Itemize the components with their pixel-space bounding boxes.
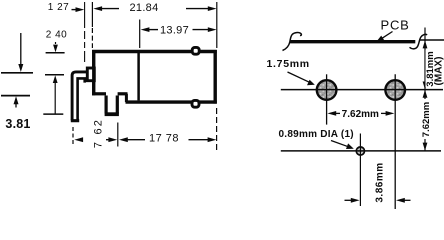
svg-text:0.89mm DIA (1): 0.89mm DIA (1) [279,129,354,140]
lever bottom reference tick [43,113,63,115]
right hole [385,80,405,100]
dim 21.84 right arrow [186,8,210,10]
switch body outline [92,50,217,104]
dim 13.97 right arrow [193,29,211,31]
dim 7.62mm vertical down arrow [423,143,428,151]
PCB board edge line [290,40,415,43]
dim 7.62 pin extension line [117,123,119,147]
svg-text:3.86mm: 3.86mm [375,162,386,202]
leader to left hole [288,72,310,82]
dim 3.86mm left outside arrow [345,199,353,201]
svg-text:3.81: 3.81 [5,117,30,131]
dim 13.97 extension line [139,20,141,49]
right hole vertical centerline [394,74,396,209]
small hole [356,147,364,155]
svg-text:7 62: 7 62 [92,118,104,148]
dim 3.86mm right outside arrow [396,198,405,203]
right break curl [410,34,428,49]
svg-text:2 40: 2 40 [46,30,67,41]
dim 7.62 right arrow [106,139,110,141]
extension line at bump left [84,2,86,62]
rotated label 3.81mm [425,50,436,87]
dim 7.62 lever extension line [72,127,74,147]
top mounting boss [192,47,199,54]
dim 2.40 lower arrow [45,74,64,76]
dim 13.97 left arrow [141,27,150,32]
left hole vertical centerline [326,74,328,124]
dim 3.81 upper arrow [20,33,22,65]
small hole row line [281,150,441,152]
extension line at body right [216,2,218,48]
dim 7.62mm horizontal [327,111,336,116]
dim 3.81mm(MAX) down arrow / 7.62mm up arrow [423,82,428,90]
svg-text:1 27: 1 27 [48,2,69,13]
svg-text:17 78: 17 78 [149,133,179,145]
dim 3.81mm(MAX) up arrow [423,40,428,48]
dim 7.62 left arrow [74,137,83,142]
body internal partition line [137,53,140,100]
svg-text:PCB: PCB [381,17,410,32]
svg-text:(MAX): (MAX) [434,57,444,86]
holes centerline [281,89,443,91]
dim 1.27 left outside arrow [72,9,78,11]
left hole [317,80,337,100]
body left edge redrawn over bump [92,50,95,95]
PCB top surface extension line [419,39,444,41]
right vertical dimension line [424,28,426,151]
dim 21.84 left arrow [93,6,102,11]
leader to small hole [331,141,349,147]
extension line at body left [91,2,93,27]
svg-text:13.97: 13.97 [160,24,189,36]
bottom mounting boss [192,100,199,107]
terminal pin [105,96,119,115]
left break curl [283,33,302,51]
dim 17.78 right extension line [216,108,218,151]
lever arm [71,72,87,121]
svg-text:21.84: 21.84 [129,2,158,14]
dim 2.40 upper arrow [55,42,57,46]
svg-text:7.62mm: 7.62mm [342,109,379,120]
PCB leader arrow [382,32,393,39]
svg-text:7.62mm: 7.62mm [421,102,432,137]
plunger bump on left side [87,68,94,81]
small hole vertical centerline [359,134,361,207]
dim 17.78 left arrow [119,137,128,142]
dim 3.81 lower arrow [1,95,30,97]
svg-text:1.75mm: 1.75mm [267,58,310,70]
rotated label 7.62mm vertical [421,99,432,139]
dim 17.78 right arrow [189,139,210,141]
